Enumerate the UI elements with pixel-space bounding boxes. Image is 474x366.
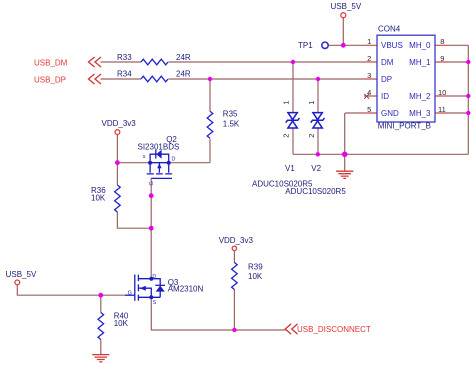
svg-text:USB_5V: USB_5V [331, 2, 362, 11]
svg-text:24R: 24R [176, 53, 191, 62]
svg-text:MH_2: MH_2 [409, 92, 431, 101]
svg-text:1: 1 [367, 37, 371, 46]
svg-text:R34: R34 [117, 70, 132, 79]
svg-text:4: 4 [367, 88, 371, 97]
svg-text:10K: 10K [91, 194, 106, 203]
svg-text:2: 2 [282, 134, 291, 138]
svg-text:D: D [152, 274, 156, 280]
svg-text:10: 10 [438, 88, 446, 97]
svg-text:10K: 10K [114, 319, 129, 328]
svg-text:R35: R35 [223, 110, 238, 119]
svg-text:USB_DISCONNECT: USB_DISCONNECT [297, 325, 371, 334]
svg-text:USB_DP: USB_DP [34, 76, 66, 85]
svg-text:VDD_3v3: VDD_3v3 [219, 236, 254, 245]
svg-text:2: 2 [307, 134, 316, 138]
svg-text:USB_5V: USB_5V [6, 270, 37, 279]
svg-text:DM: DM [381, 58, 394, 67]
svg-text:CON4: CON4 [378, 24, 401, 33]
svg-text:G: G [128, 290, 132, 296]
svg-text:VDD_3v3: VDD_3v3 [102, 119, 137, 128]
svg-text:ID: ID [381, 92, 389, 101]
svg-text:ADUC10S020R5: ADUC10S020R5 [285, 187, 346, 196]
svg-text:24R: 24R [176, 70, 191, 79]
svg-text:1: 1 [282, 101, 291, 105]
svg-text:DP: DP [381, 75, 392, 84]
svg-text:G: G [149, 181, 155, 185]
svg-text:MINI_PORT_B: MINI_PORT_B [378, 121, 431, 130]
svg-text:8: 8 [440, 37, 444, 46]
svg-text:SI2301BDS: SI2301BDS [138, 143, 180, 152]
svg-text:s: s [143, 154, 146, 160]
svg-text:R33: R33 [117, 53, 132, 62]
svg-text:MH_1: MH_1 [409, 58, 431, 67]
svg-text:GND: GND [381, 109, 399, 118]
svg-text:1: 1 [307, 101, 316, 105]
svg-text:R39: R39 [248, 262, 263, 271]
svg-text:3: 3 [367, 71, 371, 80]
svg-text:5: 5 [367, 105, 371, 114]
svg-text:9: 9 [440, 54, 444, 63]
svg-text:VBUS: VBUS [381, 41, 403, 50]
svg-text:MH_0: MH_0 [409, 41, 431, 50]
svg-text:S: S [153, 300, 157, 306]
svg-text:V1: V1 [285, 164, 295, 173]
svg-text:USB_DM: USB_DM [34, 59, 68, 68]
svg-text:D: D [172, 157, 176, 163]
svg-text:AM2310N: AM2310N [168, 285, 204, 294]
svg-text:11: 11 [438, 105, 446, 114]
svg-text:2: 2 [367, 54, 371, 63]
svg-text:1.5K: 1.5K [223, 119, 240, 128]
svg-text:V2: V2 [311, 164, 321, 173]
svg-text:10K: 10K [248, 272, 263, 281]
svg-text:TP1: TP1 [298, 41, 313, 50]
svg-text:MH_3: MH_3 [409, 109, 431, 118]
